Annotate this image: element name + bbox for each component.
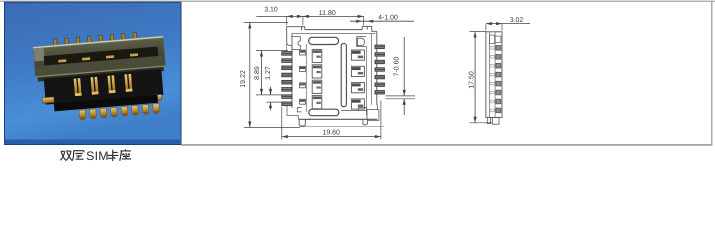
main view: right pin 5 <box>375 75 384 78</box>
side view: top small box right <box>495 36 501 42</box>
main view: bottom-left foot <box>299 119 305 126</box>
photo: slot contact 2 <box>82 57 90 60</box>
svg-text:4-1.00: 4-1.00 <box>378 14 398 21</box>
caption 双层SIM卡座 (CJK drawn as paths for portability) <box>60 149 131 161</box>
main view: left edge window 1 <box>300 50 306 55</box>
side view group <box>486 32 502 124</box>
caption glyph 卡 <box>107 150 118 161</box>
main outline: bottom-left step <box>287 106 298 120</box>
photo: blue background <box>5 2 182 144</box>
main view: top stadium slot <box>309 37 339 44</box>
page right border line <box>711 1 713 145</box>
side view: contact 5 <box>496 81 501 86</box>
svg-text:1.27: 1.27 <box>265 66 272 80</box>
main view: left pin 3 <box>282 66 292 70</box>
main view: right rail line <box>365 46 367 112</box>
side view: inner mid line <box>494 32 496 118</box>
main view: inner rail line <box>305 44 307 112</box>
svg-text:3.02: 3.02 <box>510 17 524 24</box>
photo: cover corner highlight <box>34 48 45 62</box>
main outline: top-left inner L <box>287 42 292 50</box>
side view: inner left line <box>488 32 490 118</box>
svg-text:8.89: 8.89 <box>254 66 261 80</box>
main outline: bottom edge <box>299 118 378 120</box>
photo: cover front lip <box>36 66 166 77</box>
svg-text:3.10: 3.10 <box>264 6 278 13</box>
side view: contact 4 <box>496 72 501 77</box>
main view: left pin 4 <box>282 73 292 77</box>
main view: center-left contact window 2 <box>312 65 322 78</box>
photo: slot contact 3 <box>106 55 114 58</box>
caption glyph 层 <box>72 151 84 161</box>
photo: base strip <box>54 95 158 112</box>
main view group <box>282 26 385 126</box>
main view: right contact window 3 <box>351 83 364 93</box>
main view: vertical stadium slot <box>341 43 346 106</box>
photo: left gold nub <box>42 97 54 103</box>
main view: right pin 2 <box>375 53 384 56</box>
photo: fork contact 3 <box>107 76 111 94</box>
side view: contact 3 <box>496 63 501 68</box>
main outline: top edge <box>305 29 362 31</box>
main outline: right edge <box>376 31 378 105</box>
main outline: top-left block <box>287 27 302 42</box>
svg-text:SIM: SIM <box>86 149 109 163</box>
main view: center-left contact window 1 <box>312 49 322 62</box>
main view: left pin 8 <box>282 102 292 106</box>
photo: slot contact 4 <box>130 53 138 56</box>
main view: bottom-right foot <box>363 119 368 124</box>
main view: left pin 1 <box>282 52 292 56</box>
side view: left foot <box>487 117 490 123</box>
svg-text:19.60: 19.60 <box>322 130 340 137</box>
main view: bottom-right corner box <box>367 110 379 121</box>
svg-text:11.80: 11.80 <box>319 10 336 17</box>
main view: bottom-left inner bracket <box>297 107 301 112</box>
main view: left edge window 4 <box>300 99 306 104</box>
side view: right foot <box>492 117 499 124</box>
main outline: bottom-right step <box>376 105 379 110</box>
photo: lower housing <box>44 69 164 105</box>
main outline: top tab right <box>362 26 367 29</box>
side view: contact 6 <box>496 90 501 95</box>
photo: bottom pin row <box>79 110 86 118</box>
main view: right contact window 2 <box>351 66 364 76</box>
main view: left edge window 3 <box>300 83 306 88</box>
main outline: top tab left <box>302 27 305 30</box>
page top border line <box>0 0 715 2</box>
caption glyph 座 <box>120 149 131 161</box>
main view: right pin 1 <box>375 45 384 48</box>
main view: bottom-right inner bracket <box>359 108 367 116</box>
main view: right pin 3 <box>375 60 384 63</box>
main outline: right inner edge <box>371 33 373 105</box>
main outline: left edge <box>291 33 293 108</box>
photo: card slot opening <box>44 47 158 66</box>
main view: seating plane line <box>300 126 384 128</box>
main outline: top-right corner step <box>367 26 377 31</box>
photo: fork contact 4 <box>124 74 128 92</box>
photo: right gold nub <box>153 94 162 100</box>
main view: right contact window 4 <box>351 99 364 109</box>
main view: left pin 5 <box>282 80 292 84</box>
main view: center-left contact window 3 <box>312 80 322 93</box>
photo: fork contact 2 <box>91 77 95 95</box>
main outline: left outer top <box>286 42 288 51</box>
photo: metal cover top <box>33 36 166 77</box>
main outline: top inner edge <box>292 32 375 34</box>
photo: cover lower band <box>35 56 166 77</box>
side view: contact 8 <box>496 108 501 113</box>
main view: left edge window 2 <box>300 66 306 71</box>
main view: bottom stadium slot <box>309 109 339 116</box>
SIM connector photo <box>33 30 170 123</box>
main view: right contact window 1 <box>351 50 364 60</box>
side view: contact 1 <box>496 46 501 51</box>
main view: top-right inner guide <box>357 37 366 47</box>
photo: bottom dark band <box>5 140 182 145</box>
main view: top-left inner guide <box>292 37 301 50</box>
main view: right pin 7 <box>375 91 384 94</box>
side view: contact 7 <box>496 99 501 104</box>
svg-text:17.50: 17.50 <box>468 71 475 89</box>
photo: slot contact 1 <box>58 59 66 62</box>
main view: left pin 2 <box>282 59 292 63</box>
page horizontal rule <box>181 144 712 146</box>
svg-text:19.22: 19.22 <box>240 70 247 88</box>
side view: body outline <box>486 32 502 118</box>
svg-text:7-0.60: 7-0.60 <box>393 56 400 76</box>
main view: left pin 6 <box>282 88 292 92</box>
side view: contact 2 <box>496 55 501 60</box>
main view: center-left contact window 4 <box>312 96 322 109</box>
photo: top edge pins <box>53 39 57 46</box>
main view: right pin 4 <box>375 68 384 71</box>
caption glyph 双 <box>60 151 65 160</box>
main view: right pin 6 <box>375 83 384 86</box>
main view: left pin 7 <box>282 95 292 99</box>
photo: fork contact 1 <box>74 78 78 96</box>
side view: top small box left <box>489 35 494 43</box>
main view: top-right D cutout <box>358 38 365 45</box>
